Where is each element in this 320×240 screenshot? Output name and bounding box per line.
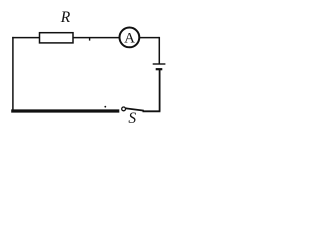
stray dot node [104,106,106,108]
wire left vertical [12,37,14,112]
wire top-left segment [12,37,40,39]
wire bottom thick segment [11,109,119,112]
ammeter U1 circle [119,28,139,48]
wire battery to bottom-right corner [159,69,161,111]
wire right vertical upper (corner to battery) [158,37,160,64]
resistor R [40,33,74,43]
switch S blade [126,108,144,110]
battery short plate (-) [156,68,163,70]
battery long plate (+) [153,63,166,65]
wire resistor to ammeter [73,37,119,39]
svg-text:A: A [124,31,135,47]
svg-text:S: S [128,110,136,127]
wire ammeter to top-right corner [140,37,159,39]
switch pivot circle [122,107,126,111]
wire bottom-right segment (corner to switch blade) [143,110,161,112]
junction tick on top wire [89,38,91,41]
svg-text:R: R [60,9,71,26]
